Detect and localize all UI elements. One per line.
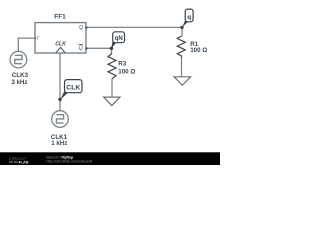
svg-text:LAB: LAB bbox=[21, 160, 29, 165]
svg-text:CLK3: CLK3 bbox=[12, 72, 29, 79]
svg-text:T: T bbox=[36, 35, 39, 40]
svg-text:Q: Q bbox=[79, 25, 83, 31]
svg-text:CLK: CLK bbox=[55, 42, 67, 48]
svg-text:100 Ω: 100 Ω bbox=[190, 47, 207, 54]
svg-text:FF1: FF1 bbox=[54, 14, 66, 21]
svg-text:Q: Q bbox=[79, 46, 83, 52]
svg-text:http://circuitlab.com/c6ouk4t: http://circuitlab.com/c6ouk4t bbox=[46, 160, 92, 164]
svg-text:q: q bbox=[187, 14, 191, 21]
svg-text:R3: R3 bbox=[118, 60, 126, 67]
svg-text:3 kHz: 3 kHz bbox=[11, 79, 27, 86]
svg-text:1 kHz: 1 kHz bbox=[51, 140, 67, 147]
svg-text:qN: qN bbox=[115, 36, 123, 42]
svg-text:CLK: CLK bbox=[66, 85, 80, 92]
svg-text:100 Ω: 100 Ω bbox=[118, 68, 135, 75]
